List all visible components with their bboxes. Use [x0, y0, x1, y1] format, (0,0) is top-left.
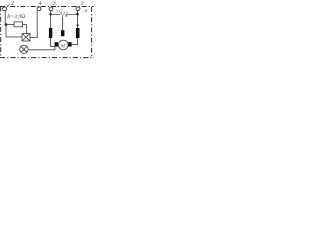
svg-text:2: 2	[11, 1, 14, 7]
svg-text:M: M	[60, 44, 66, 49]
svg-text:R=3,9Ω: R=3,9Ω	[6, 14, 25, 20]
frame left border (dash-dot)	[0, 7, 2, 59]
potentiometer end bar	[66, 12, 68, 17]
wire junction A down and right to control box left	[6, 25, 22, 37]
resistor R1 (3.9 ohm)	[14, 22, 23, 27]
wire junction A to resistor R1	[6, 24, 14, 26]
brush bar right (thick contact bar)	[76, 28, 80, 38]
indicator lamp H1 (circle with X)	[20, 45, 28, 53]
junction A dot	[5, 23, 8, 26]
wiper wire from motor up to potentiometer	[62, 17, 64, 30]
svg-text:3: 3	[52, 1, 56, 7]
potentiometer track wire left	[51, 13, 60, 15]
frame right border (dash-dot)	[91, 7, 93, 58]
wire brush bar left down to motor left brush	[51, 38, 55, 46]
terminal 3 (-)	[76, 7, 80, 11]
brush bar left (thick contact bar)	[49, 28, 52, 38]
motor M1 body	[58, 40, 68, 50]
frame top border (dash-dot)	[0, 6, 94, 8]
terminal 4	[37, 7, 41, 11]
junction dot on terminal 3 drop (lower)	[77, 24, 79, 26]
wire resistor R1 to control box top	[23, 25, 27, 34]
wire lamp to motor left brush	[28, 47, 55, 50]
label 2 leader line	[7, 4, 10, 8]
potentiometer track wire right	[67, 13, 78, 15]
wire control box right up to terminal 4	[30, 11, 37, 38]
motor top brush block	[61, 30, 64, 36]
wire motor right brush to brush bar right	[72, 38, 78, 45]
wire terminal 1 down to brush bar left	[50, 11, 52, 29]
potentiometer zigzag	[60, 12, 67, 16]
motor right brush block	[68, 42, 71, 46]
frame bottom border (dash-dot)	[0, 57, 94, 59]
svg-text:1: 1	[81, 1, 84, 7]
motor left brush block	[55, 42, 58, 46]
junction dot terminal 1 / potentiometer track	[49, 13, 51, 15]
svg-text:-R: -R	[83, 9, 88, 14]
control box K1 (box with X)	[22, 34, 30, 41]
svg-text:4: 4	[39, 0, 42, 7]
terminal 1 (+)	[49, 7, 53, 11]
wire terminal 2 down to junction A	[4, 11, 6, 25]
junction dot on terminal 3 drop (top)	[76, 13, 78, 15]
terminal 2	[3, 7, 7, 11]
wire terminal 3 down to brush bar right	[77, 11, 79, 29]
